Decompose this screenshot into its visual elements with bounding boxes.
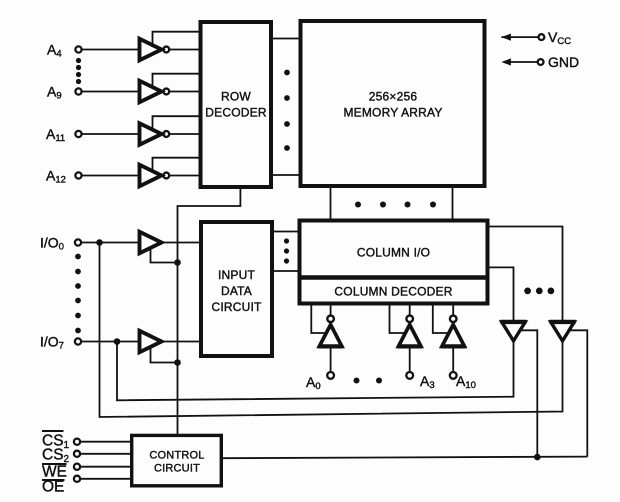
- svg-text:256×256: 256×256: [369, 90, 418, 104]
- svg-text:CIRCUIT: CIRCUIT: [211, 300, 262, 314]
- svg-text:OE: OE: [42, 479, 64, 496]
- svg-text:CIRCUIT: CIRCUIT: [154, 463, 200, 475]
- svg-text:GND: GND: [548, 54, 579, 70]
- svg-text:CONTROL: CONTROL: [149, 450, 204, 462]
- svg-text:COLUMN DECODER: COLUMN DECODER: [334, 285, 452, 299]
- svg-text:DECODER: DECODER: [205, 106, 267, 120]
- svg-text:ROW: ROW: [221, 90, 251, 104]
- svg-text:INPUT: INPUT: [218, 268, 255, 282]
- svg-text:MEMORY ARRAY: MEMORY ARRAY: [343, 106, 442, 120]
- svg-text:DATA: DATA: [221, 284, 252, 298]
- svg-text:COLUMN I/O: COLUMN I/O: [357, 246, 430, 260]
